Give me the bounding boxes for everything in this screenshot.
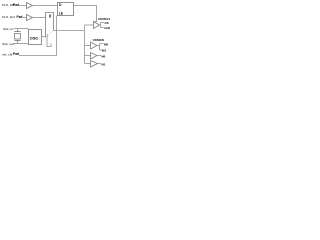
wire latch Q output to gate enable bbox=[74, 6, 97, 22]
wire bus to PECL gate input bbox=[85, 24, 94, 26]
svg-text:N0: N0 bbox=[102, 54, 106, 58]
wire CLK_EN pad to buffer U1 bbox=[19, 5, 27, 7]
buffer U3 (CLK input buffer) bbox=[27, 15, 33, 21]
oscillator U4 OSC bbox=[29, 30, 42, 45]
wire buffer U3 to mux input 0 bbox=[33, 17, 46, 19]
node sel pad label bbox=[2, 52, 19, 56]
wire OSC output to mux input 1 bbox=[42, 36, 46, 38]
svg-text:Xtal_in: Xtal_in bbox=[3, 27, 13, 31]
svg-text:OSC: OSC bbox=[30, 36, 39, 41]
buffer U1 (CLK_EN input buffer) bbox=[27, 3, 33, 9]
buffer U7 (CMOS output) bbox=[91, 42, 98, 49]
wire bus to buffer U8 bbox=[85, 55, 91, 57]
wire CMOS differential outputs bbox=[97, 44, 104, 51]
wire buffer U8 output bbox=[97, 55, 101, 57]
svg-text:0: 0 bbox=[49, 14, 52, 19]
wire clock bus vertical bbox=[84, 25, 86, 64]
buffer U9 bbox=[91, 61, 98, 68]
wire bus to buffer U7 bbox=[85, 45, 91, 47]
node CLK_Ext pad label bbox=[2, 15, 23, 19]
wire bus corner to buffer U9 bbox=[85, 63, 91, 65]
crystal Y1 bbox=[15, 29, 21, 44]
svg-text:nCK: nCK bbox=[104, 26, 110, 30]
wire Xtal_in to OSC bbox=[14, 28, 29, 30]
svg-text:D: D bbox=[59, 3, 62, 7]
svg-text:N1: N1 bbox=[102, 62, 106, 66]
node CLK_EN pad label bbox=[2, 3, 19, 7]
latch U2 (D latch, clock enable) bbox=[58, 3, 74, 16]
wire mux output to bus bbox=[54, 30, 85, 32]
wire mux select stub bbox=[47, 37, 51, 47]
svg-text:CK: CK bbox=[105, 21, 110, 25]
wire CLK_Ext pad to buffer U3 bbox=[23, 17, 27, 19]
svg-text:CLK_Ext: CLK_Ext bbox=[2, 15, 15, 19]
svg-text:Pad: Pad bbox=[13, 52, 19, 56]
wire buffer U1 to latch D input bbox=[33, 5, 58, 7]
wire PECL differential outputs bbox=[100, 23, 105, 28]
svg-text:M1: M1 bbox=[102, 48, 106, 52]
svg-text:Xtal_out: Xtal_out bbox=[2, 42, 14, 46]
wire sel pad to latch LE bbox=[19, 16, 57, 56]
svg-text:Pad: Pad bbox=[17, 15, 23, 19]
svg-text:M0: M0 bbox=[104, 42, 108, 46]
wire Xtal_out to OSC bbox=[14, 43, 29, 45]
mux U5 bbox=[46, 13, 54, 38]
buffer U6 (PECL output gate) bbox=[94, 22, 100, 29]
svg-text:LE: LE bbox=[59, 12, 64, 16]
svg-text:sel_clk: sel_clk bbox=[2, 52, 13, 56]
svg-text:Pad: Pad bbox=[13, 3, 19, 7]
buffer U8 bbox=[91, 53, 98, 60]
svg-text:CKMOS: CKMOS bbox=[93, 38, 105, 42]
wire buffer U9 output bbox=[98, 63, 102, 65]
